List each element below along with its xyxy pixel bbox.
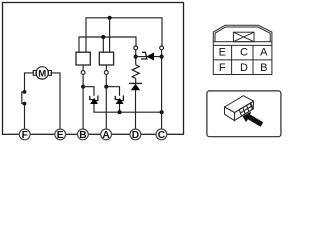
- svg-text:D: D: [132, 130, 139, 141]
- svg-text:B: B: [260, 62, 267, 74]
- wire: rail1 drop to relay 2: [109, 18, 111, 52]
- wire: relay2 to node: [105, 74, 107, 86]
- relay coil 2: [99, 52, 113, 65]
- pointer arrow: [243, 112, 264, 127]
- node under relay2: [104, 85, 108, 89]
- wire: D2 to bottom bus: [119, 104, 121, 112]
- node bus / C branch: [160, 110, 164, 114]
- pin grid top band line: [213, 44, 272, 46]
- svg-text:B: B: [79, 130, 86, 141]
- svg-text:A: A: [260, 47, 268, 59]
- connector 3d icon: [225, 96, 254, 121]
- circuit breaker on F branch: [22, 90, 27, 106]
- terminal grid on connector: [239, 103, 253, 116]
- pin grid vertical dividers: [232, 45, 253, 74]
- wire: second rail: [79, 37, 136, 52]
- diode D4: [129, 83, 142, 90]
- connector roof outline: [213, 25, 272, 41]
- left face: [225, 107, 235, 121]
- terminal circle under relay2: [104, 71, 108, 75]
- terminal B: [78, 129, 89, 141]
- terminal C: [156, 129, 167, 141]
- svg-text:C: C: [158, 130, 166, 141]
- terminal circle on C branch: [160, 46, 164, 50]
- node D branch top: [134, 55, 138, 59]
- connector location box (bottom right): [207, 91, 281, 137]
- relay coil 1: [76, 52, 90, 65]
- top face: [225, 96, 254, 113]
- svg-text:M: M: [38, 69, 46, 80]
- terminal circle under relay1: [81, 71, 85, 75]
- svg-text:E: E: [57, 130, 64, 141]
- wire: relay1 bottom pin: [82, 65, 84, 71]
- terminal E: [55, 129, 66, 141]
- wire: circle to node: [161, 50, 163, 57]
- wire: horizontal zener branch: [136, 56, 162, 58]
- wire: circle to node: [135, 50, 137, 57]
- pin grid middle divider: [213, 59, 272, 61]
- node under relay1: [81, 85, 85, 89]
- wire: jog to zener D1: [83, 87, 94, 96]
- wire: D1 to bottom bus: [94, 104, 162, 112]
- wire: motor loop top: [25, 73, 61, 129]
- wire: breaker to terminal F: [24, 104, 26, 130]
- outer circuit box: [3, 3, 184, 135]
- wire: relay1 to node: [82, 74, 84, 86]
- node D2 / bus: [117, 110, 121, 114]
- pin grid frame: [213, 42, 272, 75]
- svg-text:E: E: [219, 47, 226, 59]
- wire: node to terminal A: [105, 87, 107, 130]
- connector lock tab (crossed box): [233, 32, 254, 42]
- svg-text:C: C: [240, 47, 248, 59]
- wire: resistor top lead: [135, 57, 137, 65]
- right face: [234, 101, 253, 120]
- zener diode D1: [90, 95, 98, 104]
- zener diode D3 (horizontal): [141, 52, 154, 60]
- terminal A: [101, 129, 112, 141]
- node on second rail: [101, 35, 105, 39]
- wire: relay2 bottom pin: [105, 65, 107, 71]
- wire: rail2 drop to relay 2: [102, 37, 104, 52]
- wire: node to terminal B: [82, 87, 84, 130]
- node C branch top: [160, 55, 164, 59]
- wire: diode to terminal D: [135, 90, 137, 129]
- wire: top rail: [86, 18, 162, 52]
- connector pinout (top right): [213, 25, 272, 74]
- wire: resistor to diode: [135, 78, 137, 83]
- svg-text:A: A: [102, 130, 110, 141]
- wire: C branch vertical: [161, 57, 163, 130]
- svg-text:F: F: [22, 130, 28, 141]
- terminal F: [19, 129, 30, 141]
- terminal D: [130, 129, 141, 141]
- zener diode D2: [115, 95, 123, 104]
- wire: jog to zener D2: [106, 87, 119, 96]
- terminal circle on D branch: [134, 46, 138, 50]
- connector roof inner line: [215, 27, 270, 42]
- resistor R1: [132, 65, 139, 79]
- motor M1: [33, 67, 51, 80]
- node on top rail: [108, 16, 112, 20]
- svg-text:F: F: [219, 62, 226, 74]
- svg-text:D: D: [240, 62, 248, 74]
